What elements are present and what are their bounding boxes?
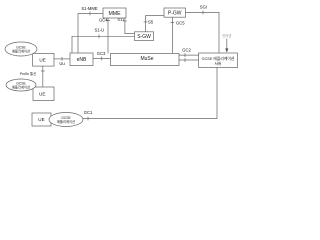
wire ProSe — [42, 66, 44, 87]
svg-text:S1-MME: S1-MME — [81, 6, 97, 11]
svg-text:S11: S11 — [117, 17, 125, 22]
svg-text:GC5: GC5 — [176, 20, 185, 25]
ellipse GCSE app 1 — [5, 42, 37, 56]
box UE2 — [33, 87, 54, 101]
svg-text:P-GW: P-GW — [168, 10, 182, 16]
wire GC1 — [83, 68, 217, 119]
ellipse GCSE app 3 — [49, 113, 83, 127]
box GCS AS — [199, 53, 238, 68]
wire S11 — [125, 18, 135, 34]
svg-text:GC4: GC4 — [99, 18, 108, 23]
svg-text:UE: UE — [39, 91, 45, 96]
box P-GW — [164, 8, 186, 17]
svg-text:서버: 서버 — [215, 61, 222, 66]
svg-text:GC1: GC1 — [84, 110, 93, 115]
box eNB — [70, 53, 93, 66]
svg-text:UE: UE — [38, 117, 44, 122]
wire GC4 — [107, 18, 109, 53]
svg-text:애플리케이션: 애플리케이션 — [12, 85, 30, 90]
svg-text:애플리케이션: 애플리케이션 — [57, 119, 75, 124]
svg-text:GC3: GC3 — [97, 51, 106, 56]
ellipse GCSE app 2 — [6, 79, 36, 91]
svg-text:인터넷: 인터넷 — [222, 33, 231, 38]
wire GC2 upper — [179, 54, 199, 56]
wire SGi — [186, 12, 220, 53]
svg-text:SGi: SGi — [200, 4, 207, 9]
box UE3 — [32, 113, 51, 126]
svg-text:Uu: Uu — [59, 61, 65, 66]
wire S5 — [146, 16, 164, 32]
svg-text:UE: UE — [39, 57, 45, 62]
wire internet label arrow — [226, 39, 228, 50]
box UE1 — [33, 53, 55, 66]
svg-text:S1-U: S1-U — [95, 28, 105, 33]
box S-GW — [135, 32, 154, 41]
svg-text:GCSE 애플리케이션: GCSE 애플리케이션 — [202, 56, 235, 61]
wire GC5 — [171, 17, 173, 53]
wire S1-MME — [78, 14, 103, 54]
wire Uu — [54, 58, 70, 60]
box MME — [103, 8, 126, 18]
svg-text:MuSe: MuSe — [140, 56, 153, 62]
svg-text:eNB: eNB — [77, 57, 87, 63]
wire GC2 lower — [179, 59, 199, 61]
svg-text:ProSe 통신: ProSe 통신 — [20, 71, 37, 76]
wire GC3 — [93, 58, 111, 60]
svg-text:애플리케이션: 애플리케이션 — [12, 49, 30, 54]
svg-text:S-GW: S-GW — [137, 34, 151, 40]
svg-text:S5: S5 — [148, 19, 154, 24]
wire S1-U — [72, 36, 135, 53]
box MuSe — [111, 53, 180, 65]
svg-text:GC2: GC2 — [182, 48, 191, 53]
